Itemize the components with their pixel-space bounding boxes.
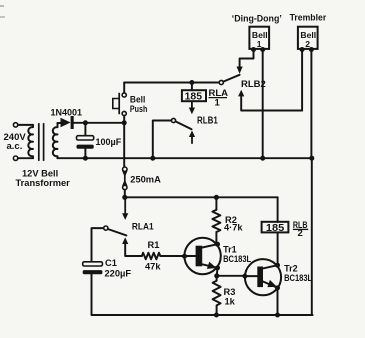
diode D1 1N4001 [61,116,74,129]
transistor Tr2 envelope circle [245,259,281,295]
wire Bell 2 left lead [301,51,303,111]
label Tr2 BC183L [284,263,312,283]
node junction dot R2 on mid rail [214,195,219,200]
capacitor C2 bottom lead [84,149,86,159]
capacitor C2 100uF negative plate [77,145,94,149]
node junction dot Tr2 collector [275,263,280,268]
svg-text:‘Ding-Dong’: ‘Ding-Dong’ [232,13,282,23]
svg-text:Transformer: Transformer [16,178,71,188]
svg-text:Trembler: Trembler [290,13,327,23]
switch S1 bottom lead [123,116,125,123]
svg-text:100µF: 100µF [96,137,122,147]
transistor Tr1 base lead [185,255,196,257]
transistor Tr1 base bar [196,246,203,267]
node junction dot Tr2 base at envelope [242,274,247,279]
resistor R1 47k zigzag [142,253,160,260]
transistor Tr1 collector lead [202,244,217,247]
label C1 220uF [105,258,132,279]
node junction dot RLA coil tap [189,80,194,85]
wire right-hand rail lower section [311,158,313,315]
svg-text:R3: R3 [224,287,236,297]
svg-text:47k: 47k [145,262,161,272]
wire fuse bottom to mid rail [124,190,126,198]
transformer T1 primary terminal top [13,123,17,127]
svg-text:220µF: 220µF [105,269,132,279]
bell 2 box [298,27,318,49]
label Bell Push [130,95,147,115]
wire bell push node down to fuse (crosses 0V rail) [123,123,125,167]
fuse FS1 top clip [123,167,127,171]
svg-text:Bell: Bell [130,95,145,105]
wire R2 top lead [215,197,217,210]
transistor Tr2 base lead [245,275,257,277]
node junction dot Tr1 emitter / R3 / Tr2 base [214,273,219,278]
transistor Tr2 collector lead [263,265,278,268]
svg-text:C1: C1 [105,258,117,268]
label RLA 1 [209,88,229,108]
transformer T1 primary winding [28,125,33,158]
node junction dot Tr1 collector [215,242,220,247]
resistor R3 1k zigzag [213,276,221,315]
switch S1 bottom terminal [122,111,126,115]
wire R1 to Tr1 base [160,255,184,257]
svg-text:4·7k: 4·7k [224,222,243,232]
node A junction dot (rectifier output) [83,120,88,125]
node junction dot C2 to 0V rail [83,156,88,161]
wire contact RLB1 to 0V rail [153,121,172,159]
wire C1 bottom to 0V bottom rail [92,274,313,315]
transistor Tr1 envelope circle [184,238,220,274]
wire diode to node A [74,122,125,124]
svg-text:RLB1: RLB1 [197,115,218,126]
label Bell 2 [300,30,316,49]
wire RLB coil bottom to Tr2 collector [277,233,279,265]
wire Tr1 emitter junction to Tr2 base [217,275,245,277]
transformer T1 secondary winding [53,123,58,158]
wire contact RLA1 pivot to C1 [92,228,104,262]
svg-text:1k: 1k [225,297,236,307]
svg-text:Tr2: Tr2 [284,263,298,273]
capacitor C2 100uF top lead [84,123,86,136]
wire RLA coil top lead [191,83,193,91]
label Tr1 BC183L [223,244,251,264]
node junction dot Tr1 emitter at envelope [215,265,220,270]
wire Bell 1 right lead down to 0V rail [262,51,264,158]
svg-text:1N4001: 1N4001 [51,107,83,117]
wire Bell 2 right lead / right-hand rail [310,51,312,158]
svg-text:Tr1: Tr1 [223,244,237,254]
svg-text:1: 1 [215,97,221,108]
contact RLB2 moving arm [223,75,239,82]
svg-text:R1: R1 [148,240,160,250]
node junction dot Bell1 right on 0V rail [260,156,265,161]
node junction dot RLB1 on 0V rail [150,156,155,161]
svg-text:2: 2 [298,228,303,239]
node junction dot R3 on bottom rail [214,313,219,318]
bell 1 box [249,27,269,49]
node junction dot bell push to rectifier [122,120,127,125]
node junction dot fuse to mid rail [122,195,127,200]
transformer T1 primary terminal bottom [13,156,17,160]
transistor Tr1 emitter lead with arrow [202,262,217,269]
wire R2 bottom to Tr1 collector [215,232,217,244]
wire Tr1 emitter down to junction [216,268,219,275]
contact RLA1 pivot terminal [104,226,108,230]
contact RLB2 pivot terminal [219,80,223,84]
node junction dot Tr2 emitter on bottom rail [275,313,280,318]
contact RLA1 moving arm [108,229,127,235]
contact RLB2 actuate-direction arrow [238,90,302,111]
bell 2 terminal dots [300,47,314,52]
label 240V a.c. [4,132,27,152]
transistor Tr2 emitter lead with arrow [263,280,277,288]
scan artifact marks top-left [0,5,5,18]
wire Bell 1 left lead to contact RLB2 [240,51,254,67]
capacitor C1 220uF positive plate [83,262,103,266]
svg-text:1: 1 [257,39,262,49]
svg-text:185: 185 [266,223,285,234]
switch S1 top terminal [122,93,126,97]
node junction dot right rail on 0V rail [309,156,314,161]
svg-text:BC183L: BC183L [223,254,251,264]
svg-text:a.c.: a.c. [7,141,23,152]
switch S1 push-button actuator [113,93,119,114]
svg-text:250mA: 250mA [130,174,161,184]
bell 1 terminal dots [251,47,265,52]
svg-text:12V Bell: 12V Bell [22,168,58,178]
contact RLA1 actuate-direction arrow [122,237,142,256]
label 12V Bell Transformer [16,168,71,188]
wire 0V rail (transformer bottom bus) [58,157,312,159]
wire primary top lead [18,124,33,126]
svg-text:185: 185 [185,91,203,102]
wire RLB coil top lead from mid rail [277,197,279,222]
contact RLA1 feed arrow (from mid rail) [122,197,128,220]
fuse FS1 element [122,171,127,186]
wire Tr2 emitter to bottom rail [277,288,279,315]
contact RLB2 fixed-side arrowhead [237,67,243,74]
node junction dot Tr2 emitter [275,285,280,290]
relay coil RLA 185 ohm box [182,90,206,101]
label RLB 2 [293,220,308,239]
capacitor C1 220uF negative plate [83,270,103,274]
label Bell 1 [252,30,268,49]
contact RLB1 actuate-direction arrow [189,131,195,144]
svg-text:RLA1: RLA1 [132,221,154,232]
wire top supply rail to contacts [124,82,221,84]
transistor Tr2 base bar [257,267,263,288]
svg-text:Push: Push [130,104,147,114]
transformer T1 core [39,123,44,161]
resistor R2 4.7k zigzag [212,210,220,232]
relay coil RLB 185 ohm box [262,222,289,233]
contact RLB1 pivot terminal [171,118,175,122]
svg-text:BC183L: BC183L [284,273,312,283]
wire secondary top to diode [58,122,61,124]
wire primary bottom lead [18,157,33,159]
svg-text:2: 2 [305,39,310,49]
switch S1 Bell Push top lead [123,83,125,94]
capacitor C2 100uF positive plate [77,136,94,140]
contact RLB1 moving arm [176,121,192,129]
fuse FS1 bottom clip [123,185,127,189]
relay coil RLA bottom arrow [189,101,195,114]
node junction dot Tr1 base [182,254,187,259]
wire mid supply rail [125,196,278,198]
